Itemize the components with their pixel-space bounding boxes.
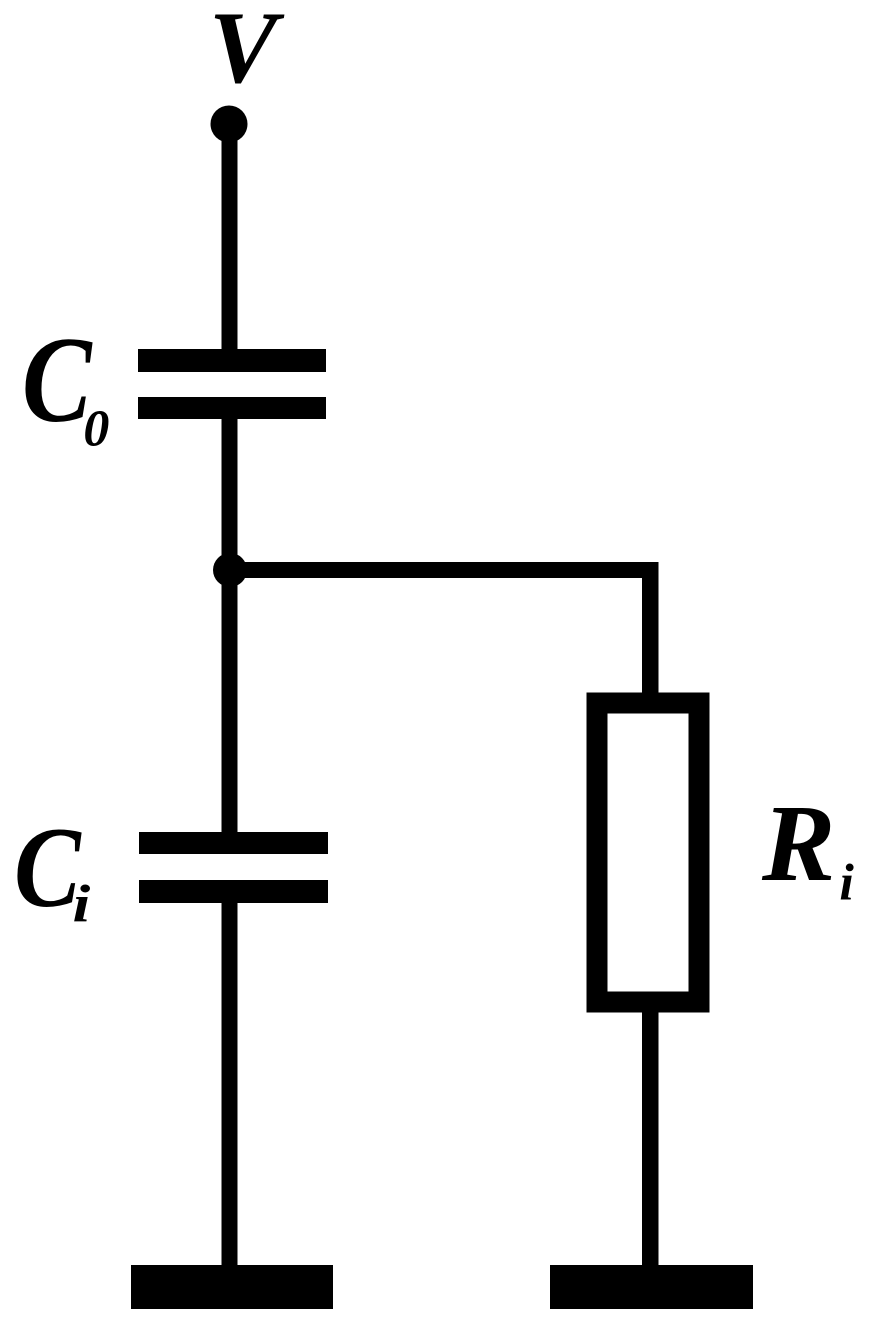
svg-text:0: 0 [83, 401, 109, 458]
svg-text:V: V [209, 0, 285, 105]
svg-text:R: R [761, 782, 835, 904]
svg-text:i: i [839, 855, 854, 912]
svg-text:C: C [14, 805, 82, 932]
svg-text:i: i [73, 875, 92, 934]
